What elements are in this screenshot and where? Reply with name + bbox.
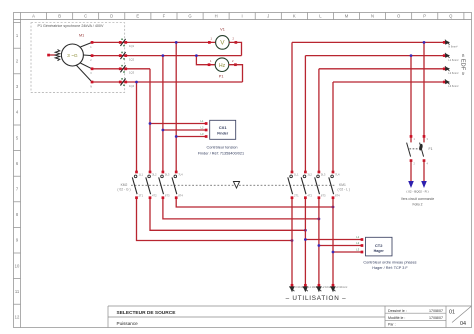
title block bbox=[108, 306, 472, 328]
svg-text:Folio 2: Folio 2 bbox=[413, 203, 423, 207]
voltage controller CX1 bbox=[210, 120, 236, 139]
svg-text:8T4: 8T4 bbox=[178, 193, 183, 197]
wire F1 feed from line2 bbox=[410, 56, 412, 143]
circuit breaker F1 bbox=[407, 135, 433, 165]
wire CX1 input L1 bbox=[149, 119, 208, 125]
contactor KM1 pole 4 bbox=[329, 171, 340, 199]
svg-text:B: B bbox=[58, 14, 61, 19]
svg-text:C: C bbox=[84, 14, 87, 19]
svg-text:N: N bbox=[90, 85, 92, 88]
wire F1 pole1 to folio 2 bbox=[410, 161, 412, 182]
svg-text:CT2: CT2 bbox=[375, 243, 383, 248]
wire drop to KM2 pole 4 bbox=[175, 42, 177, 172]
svg-text:5L3: 5L3 bbox=[165, 172, 170, 176]
svg-text:D: D bbox=[110, 14, 113, 19]
svg-text:Puissance: Puissance bbox=[117, 321, 139, 326]
svg-text:K: K bbox=[293, 14, 296, 19]
svg-text:1Q4: 1Q4 bbox=[129, 84, 135, 88]
svg-text:3L2: 3L2 bbox=[152, 172, 157, 176]
svg-text:Contrôleur tension: Contrôleur tension bbox=[206, 146, 237, 150]
wire F1 feed from line1 bbox=[423, 42, 425, 142]
svg-text:11: 11 bbox=[15, 289, 20, 294]
wire row 4 from generator bbox=[92, 81, 243, 83]
svg-text:17/08/07: 17/08/07 bbox=[429, 316, 443, 320]
disconnector Q1 pole 3 bbox=[119, 65, 135, 75]
svg-text:P1 Génératrice synchrone 24kVA: P1 Génératrice synchrone 24kVA / 400V bbox=[38, 24, 104, 28]
svg-text:F: F bbox=[163, 14, 166, 19]
svg-text:H: H bbox=[215, 14, 218, 19]
svg-text:01: 01 bbox=[449, 310, 455, 316]
svg-text:CX1: CX1 bbox=[219, 125, 228, 130]
svg-text:Dessiné le :: Dessiné le : bbox=[388, 309, 407, 313]
svg-text:3L2: 3L2 bbox=[307, 172, 312, 176]
frequency meter P1 bbox=[208, 58, 237, 78]
svg-text:( 02 - G ): ( 02 - G ) bbox=[117, 188, 130, 192]
wire KM1 pole 3 to utilisation bbox=[318, 199, 320, 285]
svg-text:1Q1: 1Q1 bbox=[129, 44, 135, 48]
svg-text:04: 04 bbox=[460, 321, 466, 327]
svg-text:6T3: 6T3 bbox=[321, 193, 326, 197]
contactor KM2 pole 4 bbox=[172, 171, 183, 199]
generator enclosure dashed box P1 bbox=[31, 23, 125, 93]
junction bbox=[175, 41, 178, 44]
contactor KM1 pole 3 bbox=[315, 171, 326, 199]
utilisation arrow 3 bbox=[316, 284, 333, 292]
svg-text:17/08/07: 17/08/07 bbox=[429, 309, 443, 313]
wire Hz tap from row2 bbox=[196, 56, 215, 65]
svg-text:Vers circuit commande: Vers circuit commande bbox=[401, 197, 435, 201]
svg-text:7L4: 7L4 bbox=[178, 172, 183, 176]
wire row 2 from generator bbox=[92, 55, 242, 57]
phase controller CT2 bbox=[366, 237, 393, 256]
node reference folio 2 bbox=[401, 190, 435, 207]
svg-text:– UTILISATION –: – UTILISATION – bbox=[286, 295, 347, 302]
svg-text:7L4: 7L4 bbox=[335, 172, 340, 176]
wire drop to KM2 pole 1 bbox=[136, 82, 138, 172]
EDF source arrow 3 bbox=[443, 66, 459, 75]
svg-text:V1: V1 bbox=[220, 28, 225, 32]
disconnector Q1 pole 1 bbox=[119, 39, 135, 49]
junction bbox=[162, 54, 165, 57]
svg-text:4T2: 4T2 bbox=[307, 193, 312, 197]
contactor KM2 pole 1 bbox=[132, 171, 143, 199]
wire CT2 input L1 bbox=[304, 235, 363, 241]
contactor KM2 pole 2 bbox=[146, 171, 157, 199]
svg-text:2T1: 2T1 bbox=[294, 193, 299, 197]
generator lead 2 bbox=[83, 54, 92, 57]
wire KM1 pole 1 to utilisation bbox=[291, 199, 293, 285]
wire bus KM2 pole 2 to KM1 pole 2 bbox=[150, 199, 305, 230]
generator lead 1 bbox=[80, 42, 92, 47]
svg-text:L2 6mm²: L2 6mm² bbox=[448, 71, 458, 75]
wire EDF line 3 bbox=[319, 68, 444, 70]
contactor KM1 pole 1 bbox=[288, 171, 299, 199]
wire KM1 pole 4 feeder bbox=[332, 82, 334, 172]
contactor KM2 pole 3 bbox=[159, 171, 170, 199]
svg-text:KM2: KM2 bbox=[121, 183, 128, 187]
svg-text:Contrôleur ordre niveau phases: Contrôleur ordre niveau phases bbox=[363, 260, 416, 264]
wire row 3 from generator bbox=[92, 68, 150, 70]
svg-text:M: M bbox=[345, 14, 349, 19]
wire KM1 pole 1 feeder bbox=[291, 42, 293, 172]
wire KM1 pole 2 to utilisation bbox=[304, 199, 306, 285]
wire CT2 input L3 bbox=[332, 247, 364, 253]
svg-text:P1: P1 bbox=[219, 74, 224, 78]
svg-text:V: V bbox=[220, 40, 225, 47]
generator winding terminal bbox=[47, 50, 60, 61]
generator M1 bbox=[61, 34, 84, 67]
voltmeter V1 bbox=[208, 28, 237, 50]
wire KM1 pole 2 feeder bbox=[304, 56, 306, 172]
wire drop to KM2 pole 2 bbox=[149, 69, 151, 172]
svg-text:Finder: Finder bbox=[217, 131, 229, 135]
svg-text:I: I bbox=[242, 14, 243, 19]
svg-text:M1: M1 bbox=[79, 34, 84, 38]
disconnector Q1 pole 2 bbox=[119, 52, 135, 62]
wire EDF line 2 bbox=[305, 55, 444, 57]
wire CX1 input L2 bbox=[162, 125, 208, 131]
wire bus KM2 pole 4 to KM1 pole 4 bbox=[176, 199, 333, 207]
contactor KM2 label bbox=[117, 183, 130, 192]
wire V1 return to row2 bbox=[229, 42, 241, 55]
wire Hz return to row4 bbox=[229, 65, 243, 82]
svg-text:E: E bbox=[136, 14, 139, 19]
utilisation arrow 4 bbox=[330, 284, 347, 292]
svg-text:L1 6mm²: L1 6mm² bbox=[448, 58, 458, 62]
svg-text:12: 12 bbox=[15, 315, 20, 320]
svg-text:A: A bbox=[32, 14, 35, 19]
wire row 1 from generator bbox=[92, 41, 216, 43]
svg-text:1L1: 1L1 bbox=[139, 172, 144, 176]
svg-text:N 6mm²: N 6mm² bbox=[448, 45, 457, 49]
svg-text:( 02 - L ): ( 02 - L ) bbox=[338, 188, 350, 192]
svg-text:Finder / Réf: 71358400/021: Finder / Réf: 71358400/021 bbox=[198, 151, 244, 155]
svg-text:1Q2: 1Q2 bbox=[129, 57, 135, 61]
svg-text:3 ~G: 3 ~G bbox=[67, 53, 78, 59]
generator lead 3 bbox=[80, 63, 92, 69]
svg-text:8T4: 8T4 bbox=[335, 193, 340, 197]
svg-text:6T3: 6T3 bbox=[165, 193, 170, 197]
svg-text:L3 10mm²: L3 10mm² bbox=[336, 285, 348, 289]
disconnector Q1 pole 4 bbox=[119, 78, 135, 88]
generator lead 4 bbox=[76, 65, 92, 82]
wire KM1 pole 4 to utilisation bbox=[332, 199, 334, 285]
svg-text:SELECTEUR DE SOURCE: SELECTEUR DE SOURCE bbox=[117, 310, 177, 316]
off-page arrow left bbox=[408, 181, 414, 188]
svg-text:Hager / Réf: TCP 3 F: Hager / Réf: TCP 3 F bbox=[372, 266, 408, 270]
svg-text:G: G bbox=[188, 14, 191, 19]
svg-text:10: 10 bbox=[15, 263, 20, 268]
svg-text:F1: F1 bbox=[429, 147, 433, 151]
contactor KM1 pole 2 bbox=[301, 171, 312, 199]
svg-text:5L3: 5L3 bbox=[321, 172, 326, 176]
junction bbox=[135, 81, 138, 84]
svg-text:KM1: KM1 bbox=[339, 183, 346, 187]
svg-text:L3 6mm²: L3 6mm² bbox=[448, 84, 458, 88]
contactor KM2 linkage and KM1 linkage dashed bbox=[131, 184, 335, 186]
svg-text:1Q3: 1Q3 bbox=[129, 71, 135, 75]
svg-text:4T2: 4T2 bbox=[152, 193, 157, 197]
svg-text:P: P bbox=[423, 14, 426, 19]
EDF source arrow 2 bbox=[443, 53, 459, 62]
svg-text:Hz: Hz bbox=[219, 63, 226, 69]
svg-text:Hager: Hager bbox=[374, 249, 385, 253]
svg-text:2T1: 2T1 bbox=[139, 193, 144, 197]
wire bus KM2 pole 3 to KM1 pole 3 bbox=[163, 199, 319, 219]
wire drop to KM2 pole 3 bbox=[162, 56, 164, 172]
utilisation arrow 2 bbox=[303, 284, 320, 292]
svg-text:N: N bbox=[371, 14, 374, 19]
svg-text:Par :: Par : bbox=[388, 323, 396, 327]
contactor KM1 label bbox=[338, 183, 350, 192]
svg-text:« EDF »: « EDF » bbox=[460, 54, 466, 75]
off-page arrow right bbox=[421, 181, 427, 188]
utilisation arrow 1 bbox=[289, 284, 305, 292]
EDF source arrow 1 bbox=[443, 40, 458, 49]
EDF source arrow 4 bbox=[443, 79, 459, 88]
wire EDF line 4 bbox=[333, 81, 444, 83]
wire EDF line 1 bbox=[292, 41, 444, 43]
wire CX1 input L3 bbox=[175, 132, 208, 138]
mechanical interlock triangle bbox=[233, 182, 239, 189]
svg-text:1L1: 1L1 bbox=[294, 172, 299, 176]
svg-text:( 02 - BQ02 - R ): ( 02 - BQ02 - R ) bbox=[406, 190, 428, 194]
wire KM1 pole 3 feeder bbox=[318, 69, 320, 172]
svg-text:J: J bbox=[267, 14, 269, 19]
wire bus KM2 pole 1 to KM1 pole 1 bbox=[137, 199, 293, 241]
wire CT2 input L2 bbox=[318, 241, 364, 247]
wire F1 pole2 to folio 2 bbox=[423, 161, 425, 182]
svg-text:Modifié le :: Modifié le : bbox=[388, 316, 405, 320]
